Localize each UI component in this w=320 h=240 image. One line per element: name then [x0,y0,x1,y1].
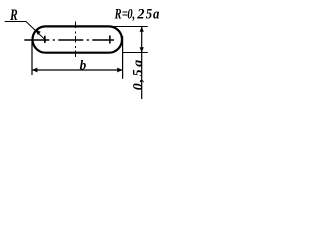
svg-text:b: b [80,59,87,74]
leader arrowhead on arc [35,30,41,35]
dimension line b [32,69,123,71]
arrow right of b [117,68,122,73]
vertical centerline [75,22,77,60]
extension line right (b) [122,36,124,79]
extension line top (0,5a) [114,26,148,28]
extension line bottom (0,5a) [123,52,148,54]
horizontal centerline [24,39,114,41]
svg-text:5: 5 [146,6,153,22]
dimension line 0,5a [141,27,143,100]
right arc center tick [109,36,111,44]
svg-text:a: a [153,6,160,22]
svg-text:R: R [9,6,18,23]
extension line left (b) [31,40,33,76]
left arc center tick [44,36,46,43]
arrow up (0,5a) [140,27,144,32]
leader line for R [5,22,45,40]
svg-text:R=0,: R=0, [114,6,135,22]
slot outline (stadium) [33,26,123,52]
arrow down (0,5a) [140,47,144,52]
arrow left of b [32,68,37,73]
svg-text:0,5a: 0,5a [131,60,146,91]
svg-text:2: 2 [136,6,144,22]
